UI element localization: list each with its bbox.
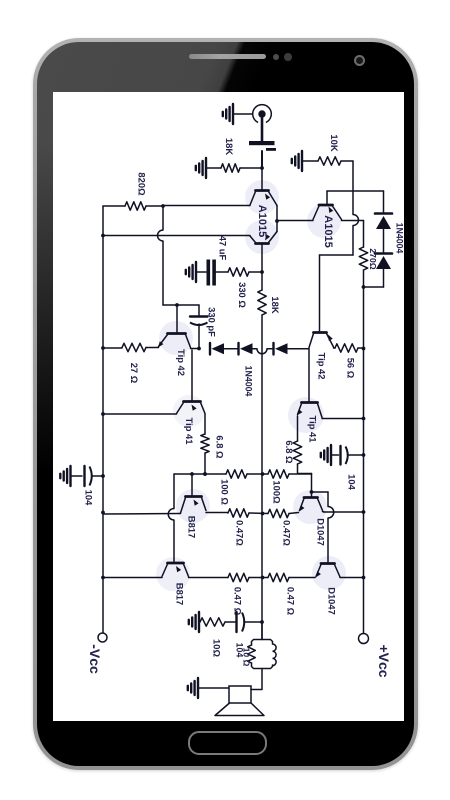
resistor 18K (vertical) xyxy=(258,290,266,315)
wire 56R to rail xyxy=(358,347,364,349)
transistor Tip41R bar xyxy=(302,401,318,404)
resistor 10R output xyxy=(248,645,256,663)
label Tip42R xyxy=(317,353,328,380)
label 104 right xyxy=(347,474,358,490)
resistor 100R right xyxy=(268,470,289,478)
label 100R left xyxy=(220,479,231,505)
RL block bottom xyxy=(252,663,273,669)
node dot D1047 base branch xyxy=(310,490,314,494)
Q2 emitter arrow xyxy=(265,234,270,240)
svg-text:Tip 42: Tip 42 xyxy=(317,353,328,380)
label 18K xyxy=(224,138,235,155)
Q2 emitter diagonal xyxy=(269,232,278,243)
screen with schematic xyxy=(53,92,404,721)
label 0.47 R2 xyxy=(286,587,297,616)
Q2 collector diagonal xyxy=(250,236,256,243)
earpiece speaker slot xyxy=(189,54,266,59)
wire hop to D3 xyxy=(267,348,273,350)
transistor Q1 A1015 bar xyxy=(256,189,269,192)
D1047-2 emitter arrow xyxy=(316,571,321,577)
front camera xyxy=(354,55,365,66)
wire D3 to Tip42R xyxy=(288,348,310,350)
wire D2 to hop xyxy=(253,348,258,350)
svg-text:0.47Ω: 0.47Ω xyxy=(235,520,246,546)
svg-text:10 Ω: 10 Ω xyxy=(242,648,252,667)
wire 270 to node xyxy=(363,270,365,287)
wire Tip42L emitter to 27R xyxy=(146,347,159,349)
label 820R xyxy=(137,172,148,196)
svg-text:Tip 41: Tip 41 xyxy=(308,416,319,443)
svg-text:1N4004: 1N4004 xyxy=(395,223,405,254)
wire 18K to node xyxy=(240,167,262,169)
node dot 820 right xyxy=(161,204,165,208)
svg-text:10K: 10K xyxy=(329,134,340,151)
Tip42L emitter diagonal xyxy=(159,335,168,347)
transistor Tip41L bar xyxy=(184,400,201,403)
wire rail to RL block xyxy=(261,622,263,640)
resistor 6.8R left xyxy=(201,434,209,453)
label A1015 (right) xyxy=(322,215,334,247)
B817-1 collector diagonal xyxy=(202,498,207,511)
svg-text:6.8 Ω: 6.8 Ω xyxy=(215,435,226,459)
svg-text:56 Ω: 56 Ω xyxy=(346,358,357,379)
Q3 emitter diagonal xyxy=(333,206,342,220)
ground (104 right) xyxy=(321,445,331,465)
wire ground to jack xyxy=(233,113,253,115)
wire Tip41L emitter row xyxy=(103,413,177,415)
op base lead Q3 xyxy=(326,191,328,204)
left rail -Vcc xyxy=(102,206,104,633)
D1047-1 emitter diagonal xyxy=(300,499,305,511)
label D1047-1 xyxy=(316,518,327,546)
capacitor 47uF xyxy=(207,260,216,286)
node dots row474 xyxy=(190,472,207,476)
Q1 collector diagonal xyxy=(250,192,256,206)
B817-1 emitter diagonal xyxy=(181,498,186,514)
rail dots xyxy=(101,234,105,580)
capacitor 104 bottom xyxy=(237,612,245,632)
capacitor 104 left xyxy=(85,466,92,486)
svg-text:18K: 18K xyxy=(270,296,281,313)
svg-text:330 Ω: 330 Ω xyxy=(237,282,248,308)
svg-text:27 Ω: 27 Ω xyxy=(129,363,140,384)
resistor 0.47R R1 xyxy=(268,509,289,517)
svg-text:D1047: D1047 xyxy=(316,518,327,546)
svg-text:Tip 42: Tip 42 xyxy=(176,349,187,376)
resistor 6.8R right xyxy=(293,441,301,464)
wire rail to 820 xyxy=(103,205,125,207)
wire Q3 emitter to 270 xyxy=(342,221,364,248)
wire D1-D2 xyxy=(224,348,238,350)
label -Vcc xyxy=(87,644,103,674)
transistor B817-2 bar xyxy=(168,562,184,565)
input jack J1 xyxy=(253,105,272,123)
wire 6.8L to row xyxy=(204,453,206,474)
svg-text:-Vcc: -Vcc xyxy=(87,644,103,674)
wire ground to 104R xyxy=(331,454,339,456)
svg-text:Tip 41: Tip 41 xyxy=(184,418,195,445)
svg-text:47 uF: 47 uF xyxy=(218,236,229,261)
Tip41L collector diagonal xyxy=(201,403,206,414)
wire ground to 47uF xyxy=(196,271,206,273)
D1047-1 collector diagonal xyxy=(318,499,323,511)
diode D1 bar xyxy=(209,343,211,355)
resistor 27R xyxy=(122,343,146,351)
wire D1047-2 collector to rail xyxy=(340,577,364,579)
svg-text:0.47Ω: 0.47Ω xyxy=(282,520,293,546)
Q3 emitter arrow xyxy=(329,207,334,213)
wire 104 to rail xyxy=(244,621,262,623)
Q1 emitter arrow xyxy=(265,194,270,200)
diode D5 1N4004 (cathode bar) xyxy=(375,252,392,255)
diode D1 triangle xyxy=(212,343,225,354)
RL block top xyxy=(252,640,273,646)
B817-1 base lead xyxy=(191,474,193,496)
label 10R output xyxy=(242,648,252,667)
right rail +Vcc xyxy=(363,287,365,634)
wire node row xyxy=(327,190,384,192)
wire node down with hop over emitter wire xyxy=(353,191,359,255)
D1047-2 collector diagonal xyxy=(335,565,341,578)
svg-text:330 pF: 330 pF xyxy=(207,307,218,337)
svg-text:820Ω: 820Ω xyxy=(137,172,148,196)
svg-text:B817: B817 xyxy=(187,516,198,538)
label B817-1 xyxy=(187,516,198,538)
wire B817-1 emitter row xyxy=(103,513,181,516)
wire row474 c xyxy=(289,473,312,475)
Tip42L collector diagonal xyxy=(186,335,191,348)
Tip42L emitter arrow xyxy=(158,341,163,347)
node dot 270 bottom xyxy=(362,285,366,289)
node dot at C1/18K junction xyxy=(260,166,264,170)
D1047-2 emitter diagonal xyxy=(316,565,321,577)
wire 047L1 to rail xyxy=(249,512,268,515)
svg-text:0.47 Ω: 0.47 Ω xyxy=(286,587,297,616)
wire ground to 10K xyxy=(302,160,318,162)
transistor B817-1 bar xyxy=(186,495,202,498)
diode D3 triangle xyxy=(275,343,288,354)
wire to Tip42R base xyxy=(320,255,354,332)
label 47uF xyxy=(218,236,229,261)
right rail dots xyxy=(362,417,366,580)
label 0.47 R1 xyxy=(282,520,293,546)
svg-text:D1047: D1047 xyxy=(327,587,338,615)
label 330pF xyxy=(207,307,218,337)
svg-text:+Vcc: +Vcc xyxy=(376,644,392,677)
wire branch down with hop (D1047-2 base feed) xyxy=(328,492,334,563)
label Tip42L xyxy=(176,349,187,376)
ground (10R zobel) xyxy=(189,612,199,632)
wire row474 a xyxy=(174,473,226,475)
svg-text:B817: B817 xyxy=(175,583,186,605)
transistor Q3 A1015 bar xyxy=(319,204,333,207)
svg-text:104: 104 xyxy=(84,490,95,506)
label 1N4004 (diode chain) xyxy=(395,223,405,254)
label 104 bottom xyxy=(235,643,245,658)
wire 104L to rail xyxy=(92,475,104,477)
svg-text:18K: 18K xyxy=(224,138,235,155)
Tip42R collector diagonal xyxy=(309,334,314,348)
terminal +Vcc xyxy=(359,634,369,644)
transistor Tip42R bar xyxy=(314,331,327,334)
wire Tip41L collector down xyxy=(204,414,206,434)
label 10K xyxy=(329,134,340,151)
phone bezel with glossy diagonal xyxy=(37,42,414,766)
wire row474 b xyxy=(247,473,268,475)
Tip41L base lead xyxy=(191,350,193,401)
wire Q1 collector row xyxy=(163,205,250,207)
Tip41R emitter diagonal xyxy=(298,404,302,415)
capacitor 330pF xyxy=(190,317,208,326)
diode D3 bar xyxy=(272,343,274,355)
Tip41R emitter arrow xyxy=(297,409,302,415)
diode D5 triangle xyxy=(376,256,391,269)
label 100R right xyxy=(272,480,283,504)
wire B817-1 collector to 0.47 xyxy=(206,512,228,514)
diode D4 1N4004 (cathode bar) xyxy=(375,212,392,215)
D1047-1 base lead xyxy=(311,474,313,498)
wire ground to R 18K xyxy=(206,167,221,169)
B817-2 arrow xyxy=(176,566,181,572)
home button xyxy=(188,731,267,755)
wire node to 330pF xyxy=(177,305,199,316)
wire 047R1 to D1047-1 xyxy=(289,513,299,514)
Q2 base lead xyxy=(261,244,263,273)
center rail xyxy=(261,315,263,639)
label 10R zobel xyxy=(212,639,223,657)
wire 820 to corner xyxy=(146,205,163,207)
wire D5 down xyxy=(363,269,384,287)
wire B817-2 collector to 0.47 xyxy=(189,577,229,579)
resistor 820R xyxy=(125,202,146,210)
wire Tip41R emitter down xyxy=(297,416,299,441)
svg-text:100 Ω: 100 Ω xyxy=(220,479,231,505)
node dot 330/rail xyxy=(260,270,264,274)
svg-text:A1015: A1015 xyxy=(256,205,268,237)
resistor 100R left xyxy=(226,470,247,478)
label 0.47 L1 xyxy=(235,520,246,546)
wire 10K down to node xyxy=(352,161,354,191)
wire Tip42L collector to node xyxy=(191,348,200,350)
wire 10R to 104 xyxy=(225,621,235,623)
label 104 left xyxy=(84,490,95,506)
Tip41L emitter diagonal xyxy=(177,403,184,414)
wire 47uF to 330 xyxy=(216,271,228,273)
svg-text:10Ω: 10Ω xyxy=(212,639,223,657)
speaker SP1 box xyxy=(229,686,251,703)
ground (104 left) xyxy=(60,466,70,486)
wire D1047-1 collector to rail (hop over branch) xyxy=(323,511,364,514)
speaker SP1 cone xyxy=(215,703,264,716)
proximity sensor dot xyxy=(273,54,279,60)
ground (18K) xyxy=(196,158,206,178)
resistor 10K xyxy=(318,157,341,165)
center rail dots xyxy=(260,472,264,624)
label 0.47 L2 xyxy=(233,587,244,616)
label 270R xyxy=(368,248,378,269)
wire row474 corner down (B817-2 base feed, hop over emitter wire) xyxy=(168,474,174,563)
wire RL to speaker xyxy=(251,669,262,690)
node dot 56R rail xyxy=(362,347,366,351)
label 56R xyxy=(346,358,357,379)
wire ground to 104L xyxy=(71,475,83,477)
label 27R xyxy=(129,363,140,384)
diode D2 triangle xyxy=(240,343,253,354)
ground (10K) xyxy=(292,151,302,171)
Q1 emitter diagonal xyxy=(269,192,278,206)
resistor 0.47R L2 xyxy=(228,573,249,581)
terminal -Vcc xyxy=(98,633,107,642)
diode D4 triangle xyxy=(376,216,391,229)
label 18K vertical xyxy=(270,296,281,313)
wire Tip42R emitter to 56R xyxy=(334,347,336,349)
ground (47uF) xyxy=(186,262,196,282)
wire 6.8R corner xyxy=(298,464,312,474)
label 1N4004 (row) xyxy=(244,366,254,397)
wire Tip41R collector row xyxy=(322,418,364,420)
B817-2 emitter diagonal xyxy=(162,564,168,577)
label Tip41R xyxy=(308,416,319,443)
resistor 10R zobel xyxy=(200,618,225,626)
resistor 18K (horizontal) xyxy=(221,164,240,172)
wire 163 down with hop xyxy=(158,206,178,305)
emitter join segment xyxy=(276,206,278,232)
svg-text:100Ω: 100Ω xyxy=(272,480,283,504)
transistor Tip42L bar xyxy=(168,332,186,335)
wire jack to C1 xyxy=(261,118,264,141)
label +Vcc xyxy=(376,644,392,677)
Q3 collector diagonal xyxy=(313,206,319,220)
resistor 330R xyxy=(228,268,249,276)
Tip42R emitter arrow xyxy=(328,335,333,341)
transistor halo shading xyxy=(156,180,346,591)
wire D4 to D5 xyxy=(383,229,385,253)
svg-text:104: 104 xyxy=(347,474,358,490)
resistor 0.47R L1 xyxy=(228,509,249,517)
Tip42L base lead xyxy=(176,305,178,333)
diode row hop over center rail xyxy=(257,349,267,354)
label 330R xyxy=(237,282,248,308)
wire ground to speaker xyxy=(198,687,229,689)
label Tip41L xyxy=(184,418,195,445)
diode D2 bar xyxy=(237,343,239,355)
transistor D1047-1 bar xyxy=(304,496,318,499)
svg-text:270Ω: 270Ω xyxy=(368,248,378,269)
svg-text:1N4004: 1N4004 xyxy=(244,366,254,397)
wire emitters to Q3 xyxy=(277,220,313,222)
transistor Q2 A1015 bar xyxy=(256,242,269,245)
sensor dot 2 xyxy=(284,53,292,61)
Tip41R collector diagonal xyxy=(318,404,323,418)
wire 104R to rail xyxy=(348,454,364,456)
resistor 56R xyxy=(335,344,358,352)
node dot emitters xyxy=(275,219,279,223)
wire 047R2 to D1047-2 xyxy=(289,577,315,579)
wire 10K to corner xyxy=(341,160,353,162)
transistor D1047-2 bar xyxy=(321,562,335,565)
Tip42R emitter diagonal xyxy=(327,334,334,348)
Tip41L arrow xyxy=(192,405,197,411)
ground (input jack) xyxy=(223,104,233,124)
label D1047-2 xyxy=(327,587,338,615)
svg-text:0.47 Ω: 0.47 Ω xyxy=(233,587,244,616)
B817-2 collector diagonal xyxy=(184,564,189,577)
Tip41R base lead xyxy=(308,349,310,402)
node dot 6.8L xyxy=(203,472,207,476)
svg-text:6.8 Ω: 6.8 Ω xyxy=(284,440,295,464)
label 6.8L xyxy=(215,435,226,459)
svg-text:A1015: A1015 xyxy=(322,215,334,247)
wire 047L2 to rail xyxy=(249,577,268,579)
wire rail to 27R xyxy=(103,347,122,349)
wire C1 to Q1 base xyxy=(261,151,263,190)
capacitor C1 (input coupling) xyxy=(249,141,276,151)
label B817-2 xyxy=(175,583,186,605)
wire base branch right xyxy=(312,491,329,493)
node dot 177/305 xyxy=(175,303,179,307)
capacitor 104 right xyxy=(341,446,348,465)
wire to diode chain xyxy=(383,191,385,213)
B817-1 arrow xyxy=(194,500,199,506)
label 6.8R xyxy=(284,440,295,464)
phone body (gray rim) xyxy=(33,38,418,770)
wire to 18K vertical xyxy=(261,272,263,290)
wire Q2 collector row xyxy=(103,235,250,237)
wire 330pF down xyxy=(198,324,200,349)
inductor L1 coil xyxy=(273,644,277,666)
wire B817-2 emitter to rail xyxy=(103,577,162,579)
resistor 270R xyxy=(359,247,367,270)
wire 330 to rail xyxy=(249,271,262,273)
node dot diode row xyxy=(197,347,201,351)
label A1015 (left pair) xyxy=(256,205,268,237)
resistor 0.47R R2 xyxy=(268,573,289,581)
ground (speaker) xyxy=(188,678,198,698)
D1047-1 emitter arrow xyxy=(299,505,304,511)
